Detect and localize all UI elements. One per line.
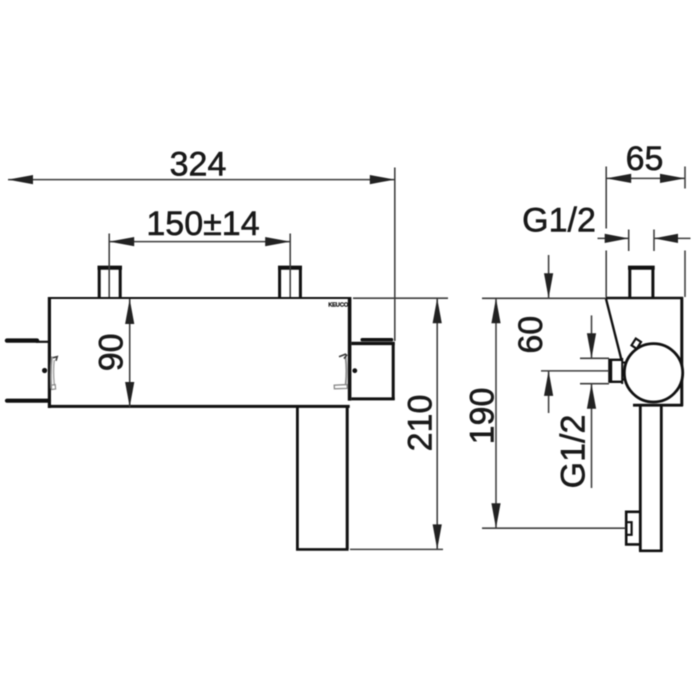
body (mixer housing front view) — [48, 297, 351, 408]
top extension line from body top right — [353, 297, 448, 299]
dim 324 left arrow — [8, 175, 33, 184]
dim G1/2 lower bottom arrow (up) — [587, 384, 596, 409]
extension lines outlet top/bottom — [580, 357, 609, 359]
dim 210 — [350, 298, 448, 549]
slanted left edge — [606, 298, 622, 360]
dim G1/2 lower top arrow (down) — [587, 333, 596, 358]
svg-text:150±14: 150±14 — [146, 205, 259, 243]
svg-text:KEUCO: KEUCO — [328, 302, 349, 308]
dim G1/2 left arrow (pointing right) — [605, 234, 629, 243]
dim 90 top arrow — [125, 299, 134, 324]
hose connector bump — [626, 512, 639, 545]
extension line right stub center — [289, 234, 291, 298]
outlet pipe (front, going down) — [296, 407, 349, 549]
svg-text:G1/2: G1/2 — [522, 202, 596, 240]
lever mark right (grey) — [345, 357, 348, 385]
svg-text:90: 90 — [93, 333, 131, 371]
safety button dot right — [352, 368, 357, 373]
inlet stub right (top) — [278, 268, 302, 299]
volume handle grip lip right — [362, 338, 391, 341]
dim 60 top arrow (pointing down) — [544, 273, 553, 298]
dim 150±14 — [109, 234, 290, 298]
dim 324 line — [8, 168, 395, 342]
extension line outlet centerline — [541, 370, 609, 372]
dim 150 right arrow — [265, 237, 290, 246]
bottom extension line — [482, 527, 626, 529]
svg-text:65: 65 — [626, 140, 664, 178]
dim 324 right extension line — [394, 168, 396, 342]
extension line left stub center — [108, 234, 110, 298]
svg-text:324: 324 — [170, 145, 227, 183]
connector notch — [626, 522, 631, 535]
eco stop button tab on knob — [632, 339, 642, 349]
side inlet stub (top) — [628, 268, 655, 299]
dim 60 — [541, 255, 609, 413]
temperature handle top line to body — [36, 341, 49, 343]
lever mark left (grey) — [50, 357, 53, 389]
dim G1/2 lower (hose outlet) — [580, 315, 609, 488]
svg-text:190: 190 — [464, 388, 502, 445]
dim G1/2 right arrow (pointing left) — [654, 234, 678, 243]
temperature handle left (front, edge lines) — [7, 338, 37, 342]
neck lines to knob — [623, 362, 629, 364]
dim G1/2 (top stub) — [598, 230, 691, 252]
right extension line — [684, 167, 686, 189]
dim 190 bottom arrow — [491, 503, 500, 528]
safety button dot left — [42, 368, 47, 373]
svg-text:60: 60 — [512, 316, 550, 354]
dim 210 bottom arrow — [433, 524, 442, 549]
dim 210 top arrow — [433, 298, 442, 323]
dim 210 line — [436, 298, 438, 549]
temperature handle bottom line — [7, 399, 49, 403]
extension lines at stub — [628, 230, 630, 252]
dim 65 left arrow — [606, 174, 631, 183]
left extension line — [605, 167, 607, 229]
dim 190 — [482, 298, 626, 528]
svg-text:210: 210 — [402, 395, 440, 452]
dim 65 — [606, 167, 685, 298]
bottom extension line from pipe bottom — [350, 548, 443, 550]
svg-text:G1/2: G1/2 — [555, 415, 593, 489]
inlet stub left (top) — [98, 268, 123, 299]
dim 60 bottom arrow (pointing up) — [544, 371, 553, 396]
side outlet pipe (down) — [639, 406, 663, 551]
shower hose outlet (side, left) — [609, 358, 629, 384]
top extension line shared — [482, 297, 606, 299]
dim 324 right arrow — [370, 175, 395, 184]
side body outline — [606, 297, 683, 406]
dim 90 (vertical inside body) — [129, 299, 131, 407]
dim 90 bottom arrow — [125, 382, 134, 407]
dim 190 top arrow — [491, 298, 500, 323]
volume handle right (front) — [352, 342, 395, 400]
dim 65 right arrow — [660, 174, 685, 183]
dim 150 left arrow — [109, 237, 134, 246]
thermostat knob (circle) — [624, 344, 682, 402]
